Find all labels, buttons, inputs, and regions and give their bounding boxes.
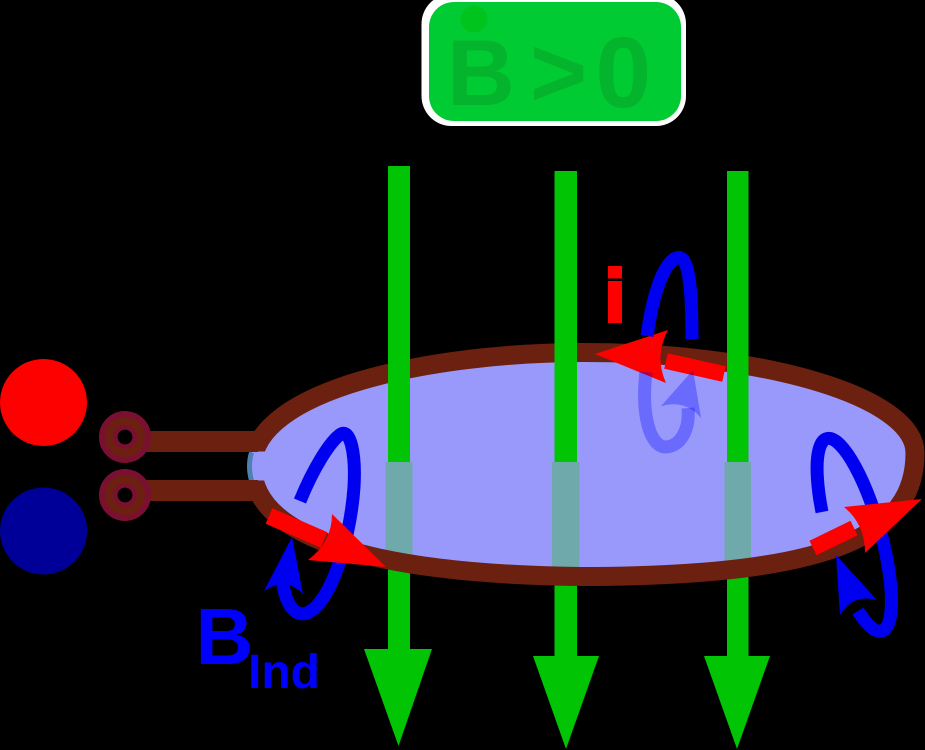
terminal top (102, 414, 148, 460)
inner tube edge (steel crescent) (250, 453, 252, 481)
B-field arrow 2 teal segment inside loop (552, 462, 580, 569)
gap cutout at left tip of ring (228, 452, 250, 482)
right current bar (813, 528, 854, 548)
left current bar (269, 516, 324, 540)
fill patch in gap (250, 452, 268, 481)
top B_ind loop lower arc (faint) (645, 372, 689, 447)
red pole circle (0, 359, 87, 446)
right current head (points up-right) (844, 499, 922, 553)
loop fill (membrane) (253, 353, 916, 577)
B-field arrow 1 lower shaft (388, 556, 410, 652)
B-dot > 0 box (422, 0, 687, 129)
B-field arrow 3 upper shaft (727, 171, 749, 462)
B-field arrow 3 head (704, 656, 770, 749)
B-field arrow 2 head (533, 656, 599, 749)
B-field arrow 3 teal segment inside loop (725, 462, 752, 564)
right B_ind head (points up-left) (836, 555, 877, 615)
label i (608, 266, 622, 279)
top B_ind loop upper arc (dark) (647, 257, 692, 339)
conducting loop ring (253, 353, 916, 577)
right B_ind loop arc (817, 438, 891, 631)
svg-text:0: 0 (596, 17, 652, 129)
wire top (118, 431, 258, 452)
terminal bottom (102, 472, 148, 518)
left B_ind loop arc (283, 433, 354, 614)
left current head (points down-right) (308, 514, 386, 567)
B-field arrow 1 upper shaft (388, 166, 410, 462)
B-field arrow 2 lower shaft (555, 569, 578, 659)
svg-text:>: > (530, 17, 587, 127)
top B_ind faint head (661, 370, 701, 418)
navy pole circle (0, 488, 87, 575)
current arrow top: head pointing left (595, 330, 668, 383)
svg-text:B: B (447, 20, 515, 125)
B-field arrow 1 head (364, 649, 432, 746)
wire bottom (118, 480, 258, 501)
B-field arrow 3 lower shaft (727, 564, 749, 659)
svg-text:B: B (196, 592, 254, 681)
B-field arrow 2 upper shaft (555, 171, 578, 462)
current arrow top: bar (666, 361, 724, 374)
left B_ind head (points up) (264, 537, 303, 594)
svg-text:Ind: Ind (248, 646, 320, 699)
B-field arrow 1 teal segment inside loop (386, 462, 413, 556)
